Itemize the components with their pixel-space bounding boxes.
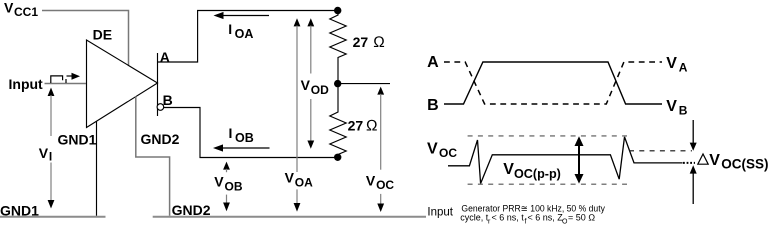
measure VOCpp arrow bbox=[575, 136, 584, 183]
svg-text:Ω: Ω bbox=[373, 34, 385, 51]
resistor R1 27ohm bbox=[330, 11, 346, 84]
dashed steady level bbox=[629, 150, 692, 152]
ground GND1 rail bbox=[0, 216, 106, 218]
svg-text:B: B bbox=[679, 104, 688, 118]
svg-text:OB: OB bbox=[235, 131, 254, 145]
measure VI arrow bbox=[48, 88, 55, 209]
label VA bbox=[666, 55, 688, 75]
svg-text:GND1: GND1 bbox=[58, 132, 97, 148]
svg-text:V: V bbox=[666, 55, 677, 72]
label VOCSS bbox=[709, 152, 768, 171]
svg-text:OA: OA bbox=[235, 27, 254, 41]
measure VOC arrow bbox=[377, 87, 384, 212]
svg-text:OD: OD bbox=[311, 83, 329, 97]
svg-text:V: V bbox=[503, 161, 514, 178]
svg-text:cycle, t: cycle, t bbox=[460, 213, 489, 223]
wire input bbox=[45, 83, 87, 85]
svg-text:OB: OB bbox=[225, 180, 243, 194]
svg-text:27: 27 bbox=[348, 118, 364, 134]
svg-text:V: V bbox=[285, 170, 295, 186]
wire GND2 jog bbox=[136, 97, 170, 216]
label IOB bbox=[229, 125, 254, 145]
svg-text:GND2: GND2 bbox=[172, 202, 211, 218]
svg-text:I: I bbox=[49, 150, 52, 164]
svg-text:< 6 ns, t: < 6 ns, t bbox=[492, 213, 525, 223]
svg-text:A: A bbox=[427, 54, 439, 71]
svg-text:I: I bbox=[228, 21, 232, 37]
dashed lower bound bbox=[468, 183, 627, 185]
svg-text:f: f bbox=[525, 218, 527, 225]
svg-text:V: V bbox=[666, 98, 677, 115]
svg-text:= 50 Ω: = 50 Ω bbox=[568, 213, 595, 223]
label 27 ohm lower bbox=[348, 118, 378, 135]
node bottom bbox=[334, 154, 341, 161]
label VOCpp bbox=[503, 161, 561, 181]
svg-text:A: A bbox=[679, 61, 688, 75]
resistor R2 27ohm bbox=[330, 84, 346, 158]
svg-text:OA: OA bbox=[295, 176, 313, 190]
svg-text:V: V bbox=[39, 145, 49, 161]
label IOA bbox=[228, 21, 253, 41]
current arrow IOA bbox=[214, 12, 270, 19]
svg-text:GND1: GND1 bbox=[0, 202, 39, 218]
node middle bbox=[334, 80, 341, 87]
label VOC waveform bbox=[427, 141, 457, 161]
svg-text:OC: OC bbox=[439, 146, 457, 160]
label 27 ohm upper bbox=[353, 34, 385, 51]
svg-text:V: V bbox=[214, 174, 224, 190]
label VOA bbox=[285, 170, 314, 190]
note generator line2 bbox=[460, 213, 595, 226]
svg-text:Ω: Ω bbox=[366, 118, 378, 135]
label VCC1 bbox=[4, 0, 38, 19]
pin B stub and bubble bbox=[157, 83, 164, 116]
svg-text:OC(p-p): OC(p-p) bbox=[514, 167, 561, 181]
svg-text:I: I bbox=[229, 125, 233, 141]
pin A stub bbox=[157, 53, 159, 83]
svg-text:27: 27 bbox=[353, 34, 369, 50]
dashed upper bound bbox=[468, 135, 627, 137]
ground GND2 rail bbox=[153, 216, 426, 218]
wire middle node bbox=[338, 83, 390, 85]
waveform A dashed trace bbox=[444, 62, 662, 104]
label VOB bbox=[214, 174, 243, 194]
svg-text:V: V bbox=[709, 152, 720, 169]
svg-text:Input: Input bbox=[9, 76, 44, 92]
wire triangle ground drop bbox=[96, 121, 98, 216]
waveform B solid trace bbox=[444, 62, 662, 104]
dotted VOC trace end bbox=[683, 162, 695, 164]
label VOC schematic bbox=[366, 172, 395, 192]
measure VOCSS upper arrow bbox=[690, 120, 697, 151]
measure VOCSS lower arrow bbox=[690, 165, 697, 204]
svg-text:B: B bbox=[427, 97, 439, 114]
svg-text:V: V bbox=[366, 172, 376, 188]
svg-text:B: B bbox=[163, 92, 173, 108]
measure VOA arrow bbox=[294, 18, 301, 211]
wire VCC1 to DE bbox=[42, 11, 129, 66]
svg-text:CC1: CC1 bbox=[14, 5, 38, 19]
svg-text:< 6 ns, Z: < 6 ns, Z bbox=[528, 213, 564, 223]
delta triangle bbox=[698, 154, 708, 164]
waveform VOC trace bbox=[448, 137, 683, 184]
pulse generator symbol bbox=[51, 73, 80, 83]
svg-text:OC(SS): OC(SS) bbox=[721, 156, 768, 171]
measure VOB arrow bbox=[223, 162, 230, 212]
node top bbox=[334, 7, 341, 14]
svg-text:OC: OC bbox=[376, 178, 394, 192]
svg-text:V: V bbox=[427, 141, 438, 158]
svg-text:V: V bbox=[4, 0, 14, 15]
svg-text:GND2: GND2 bbox=[141, 131, 180, 147]
svg-text:DE: DE bbox=[93, 27, 112, 43]
op-amp U1 driver triangle bbox=[87, 40, 158, 128]
wire B to bottom node bbox=[164, 108, 339, 158]
label VI bbox=[39, 145, 52, 164]
measure VOD arrow bbox=[307, 18, 314, 149]
label VOD bbox=[301, 77, 330, 97]
label VB bbox=[666, 98, 688, 118]
svg-text:V: V bbox=[301, 77, 311, 93]
svg-text:Input: Input bbox=[427, 207, 453, 219]
wire A to top node bbox=[158, 11, 339, 63]
current arrow IOB bbox=[213, 144, 270, 151]
